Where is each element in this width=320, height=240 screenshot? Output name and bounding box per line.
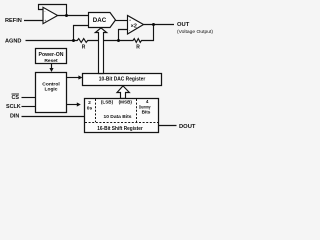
svg-text:Control: Control [42, 81, 60, 87]
node output feedback junction [152, 23, 155, 26]
power-on reset box [36, 49, 67, 64]
resistor R2 [132, 39, 144, 43]
wire resistor row across [91, 40, 132, 42]
svg-text:SCLK: SCLK [6, 104, 21, 110]
wire buffer feedback loop [39, 5, 67, 16]
svg-text:AGND: AGND [5, 38, 21, 44]
svg-text:10-Bit DAC Register: 10-Bit DAC Register [99, 76, 146, 82]
svg-text:OUT: OUT [177, 22, 190, 28]
wire CS to control logic [22, 97, 36, 99]
16-bit shift register box [85, 99, 159, 133]
svg-text:DAC: DAC [93, 17, 107, 24]
wire REFIN to buffer [24, 20, 43, 22]
arrow control logic to DAC register [67, 77, 79, 79]
control logic box [36, 73, 67, 113]
svg-text:(Voltage Output): (Voltage Output) [177, 29, 213, 35]
svg-text:R: R [136, 45, 140, 51]
op-amp U1 buffer [43, 7, 58, 23]
wire R2 to output feedback [144, 25, 154, 41]
svg-text:CS: CS [12, 95, 20, 101]
svg-text:DIN: DIN [10, 114, 19, 120]
wire AGND [26, 40, 76, 42]
wire DAC to x2 amp [116, 20, 128, 22]
wire AGND branch up to DAC [74, 26, 89, 41]
wire DIN to shift register [22, 116, 85, 118]
divider dashed vertical 2 [136, 99, 138, 122]
svg-text:10 Data Bits: 10 Data Bits [104, 114, 132, 120]
big arrow DAC register to DAC [95, 28, 106, 74]
wire SCLK to control logic [22, 106, 36, 108]
svg-text:(MSB): (MSB) [119, 100, 133, 105]
svg-text:4: 4 [146, 99, 149, 104]
arrow control logic to shift register [67, 104, 78, 106]
node buffer feedback junction [65, 14, 68, 17]
op-amp U2 x2 [128, 16, 144, 35]
svg-text:(LSB): (LSB) [101, 100, 114, 105]
wire x2 inverting input [119, 30, 128, 41]
svg-text:0s: 0s [87, 105, 93, 111]
svg-text:Logic: Logic [44, 87, 57, 93]
svg-text:Power-ON: Power-ON [39, 52, 64, 58]
svg-text:REFIN: REFIN [5, 18, 22, 24]
wire buffer output to DAC [58, 15, 89, 17]
wire DOUT [159, 125, 177, 127]
10-bit DAC register box [83, 74, 162, 86]
arrow shift register to DAC register [117, 86, 129, 99]
svg-text:×2: ×2 [131, 24, 137, 30]
node AGND branch junction [72, 39, 75, 42]
wire POR to control logic arrow [51, 64, 53, 69]
svg-text:Bits: Bits [142, 110, 151, 115]
wire amp output to OUT [144, 24, 175, 26]
resistor R1 [76, 39, 91, 43]
divider dashed horizontal [85, 122, 159, 124]
svg-text:DOUT: DOUT [179, 124, 196, 130]
node inverting input junction [117, 39, 120, 42]
svg-text:Dummy: Dummy [139, 104, 151, 109]
svg-text:R: R [82, 45, 86, 51]
DAC block [89, 13, 116, 28]
svg-text:16-Bit Shift Register: 16-Bit Shift Register [97, 126, 143, 132]
svg-text:Reset: Reset [44, 58, 58, 64]
svg-text:2: 2 [88, 100, 91, 106]
divider dashed vertical 1 [95, 99, 97, 122]
